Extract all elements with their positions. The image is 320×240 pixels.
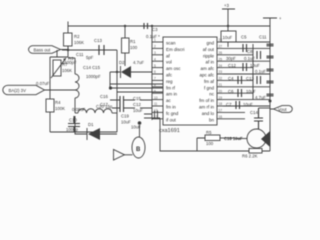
svg-text:3: 3 <box>154 51 156 55</box>
capacitor C6 <box>228 89 266 100</box>
svg-text:C19: C19 <box>121 114 129 119</box>
capacitor C14 labels <box>83 65 101 79</box>
svg-text:+: + <box>279 16 282 21</box>
svg-text:C14: C14 <box>250 110 258 115</box>
capacitor C14 <box>250 108 270 129</box>
svg-text:+3: +3 <box>224 3 230 8</box>
wire bottom rail <box>160 118 270 151</box>
wire right rail <box>269 26 271 151</box>
svg-text:24: 24 <box>219 64 223 68</box>
svg-text:11: 11 <box>154 102 158 106</box>
capacitor C9 <box>221 26 236 47</box>
chip internal pin labels <box>166 41 215 123</box>
svg-text:9: 9 <box>154 89 156 93</box>
svg-text:19: 19 <box>219 96 223 100</box>
wire left block <box>50 46 68 132</box>
svg-text:C11: C11 <box>76 52 84 57</box>
svg-text:4: 4 <box>154 57 156 61</box>
op-amp U1 chip body cxa1691 <box>163 37 217 125</box>
capacitor C17 <box>100 102 135 112</box>
capacitor C11 <box>62 52 84 65</box>
svg-text:106K: 106K <box>74 40 84 45</box>
resistor R4 <box>46 99 65 112</box>
chip pins right <box>217 42 223 119</box>
earphone B1 <box>125 137 146 158</box>
svg-text:10uF: 10uF <box>133 108 143 113</box>
svg-text:0.05uF: 0.05uF <box>72 107 86 112</box>
svg-text:R2: R2 <box>74 34 80 39</box>
svg-text:B: B <box>136 147 141 153</box>
svg-text:am in: am in <box>166 92 178 97</box>
resistor R1 <box>122 26 138 66</box>
svg-text:BA(2) 3V: BA(2) 3V <box>9 88 27 93</box>
svg-text:C10: C10 <box>69 118 77 123</box>
svg-text:cxa1691: cxa1691 <box>159 128 180 134</box>
svg-text:R5: R5 <box>206 130 212 135</box>
wires chip right to rail <box>223 42 270 119</box>
svg-text:Em discri: Em discri <box>166 47 185 52</box>
svg-text:10uF: 10uF <box>121 120 131 125</box>
svg-text:25: 25 <box>219 57 223 61</box>
node Vout <box>269 100 293 113</box>
svg-text:8: 8 <box>154 83 156 87</box>
svg-text:C6: C6 <box>228 89 234 94</box>
svg-text:23: 23 <box>219 70 223 74</box>
svg-text:scan: scan <box>166 41 176 46</box>
node Bass out <box>29 46 69 54</box>
svg-text:1: 1 <box>154 38 156 42</box>
svg-text:and lo: and lo <box>202 111 215 116</box>
svg-text:C12: C12 <box>228 63 236 68</box>
svg-text:C17: C17 <box>100 102 108 107</box>
resistor R6 <box>242 149 270 159</box>
diode D2 <box>110 60 152 88</box>
wire left rail <box>67 26 69 50</box>
wire top supply rail <box>68 22 270 27</box>
svg-text:0.1uF: 0.1uF <box>244 56 255 61</box>
svg-text:10uF: 10uF <box>250 63 260 68</box>
svg-text:C13: C13 <box>94 38 102 43</box>
svg-text:apc afc: apc afc <box>199 73 214 78</box>
svg-text:af in: af in <box>205 60 214 65</box>
svg-text:C3: C3 <box>152 27 158 32</box>
svg-text:C14 C15: C14 C15 <box>83 65 101 70</box>
svg-text:bn: bn <box>209 117 215 122</box>
svg-text:C11: C11 <box>259 35 267 40</box>
svg-text:C16: C16 <box>100 94 108 99</box>
svg-text:gnd: gnd <box>206 41 214 46</box>
svg-text:28: 28 <box>219 38 223 42</box>
wire bottom left <box>50 131 117 133</box>
svg-text:ac: ac <box>166 98 172 103</box>
svg-text:Bass out: Bass out <box>34 47 52 52</box>
capacitor C12b <box>228 63 266 74</box>
svg-text:Vout: Vout <box>278 107 287 112</box>
svg-text:if out: if out <box>166 117 177 122</box>
speaker triangle <box>114 150 125 161</box>
node BA(2) 3V <box>3 85 75 94</box>
capacitor C19 <box>121 100 160 125</box>
inductor L1 <box>68 58 79 113</box>
svg-text:21: 21 <box>219 83 223 87</box>
svg-text:C5: C5 <box>241 35 247 40</box>
svg-text:am afc: am afc <box>200 66 214 71</box>
svg-text:R4: R4 <box>55 100 61 105</box>
svg-text:afc: afc <box>166 73 173 78</box>
svg-text:vol: vol <box>166 60 172 65</box>
diode D3 at pot <box>261 131 270 147</box>
svg-text:13: 13 <box>154 115 158 119</box>
svg-text:6: 6 <box>154 70 156 74</box>
svg-text:fm in: fm in <box>166 105 176 110</box>
svg-text:5pF: 5pF <box>86 55 94 60</box>
svg-text:D1: D1 <box>88 122 94 127</box>
wire bass to node <box>62 49 117 51</box>
svg-text:4.7uF: 4.7uF <box>133 60 144 65</box>
svg-text:reg: reg <box>166 79 173 84</box>
svg-text:17: 17 <box>219 109 223 113</box>
capacitor C12 cluster labels <box>133 96 143 113</box>
svg-text:100K: 100K <box>55 106 65 111</box>
svg-text:fc gnd: fc gnd <box>166 111 179 116</box>
svg-text:5: 5 <box>154 64 156 68</box>
svg-text:10: 10 <box>154 96 158 100</box>
svg-text:30pF: 30pF <box>226 56 236 61</box>
svg-text:0.1uF: 0.1uF <box>255 69 266 74</box>
capacitor plates on rail <box>267 44 274 96</box>
potentiometer volume <box>224 129 266 148</box>
capacitor C4 <box>228 76 261 84</box>
svg-text:7: 7 <box>154 77 156 81</box>
capacitor C10 <box>66 116 80 132</box>
capacitor C8 <box>226 49 261 61</box>
diode D1 <box>75 116 117 140</box>
svg-text:4.7uF: 4.7uF <box>255 95 266 100</box>
svg-text:fm rf: fm rf <box>166 85 176 90</box>
capacitor C13 <box>86 38 104 60</box>
svg-text:R1: R1 <box>130 39 136 44</box>
svg-text:2: 2 <box>154 45 156 49</box>
svg-text:C8: C8 <box>247 49 253 54</box>
svg-text:ripple: ripple <box>203 53 215 58</box>
svg-text:af out: af out <box>203 47 215 52</box>
svg-text:22: 22 <box>219 77 223 81</box>
svg-text:10uF: 10uF <box>243 102 253 107</box>
svg-text:0.07uF: 0.07uF <box>36 81 50 86</box>
wire chip left rail <box>151 26 153 120</box>
svg-text:R6 2.2K: R6 2.2K <box>242 154 258 159</box>
wire mid vertical <box>116 50 118 132</box>
svg-text:fm of in: fm of in <box>199 98 214 103</box>
resistor R2 <box>64 33 85 46</box>
wires into chip left <box>109 84 163 92</box>
svg-text:100: 100 <box>206 141 214 146</box>
chip pins left <box>152 42 163 119</box>
power +3V symbol <box>222 3 235 26</box>
svg-text:26: 26 <box>219 51 223 55</box>
svg-text:C7: C7 <box>226 102 232 107</box>
vertical link right <box>252 44 254 100</box>
svg-text:C12: C12 <box>133 102 141 107</box>
junction dots <box>67 25 229 73</box>
capacitor C5 <box>241 35 267 53</box>
wire pot to rail <box>267 138 271 140</box>
svg-text:nc: nc <box>209 92 215 97</box>
capacitor C7 <box>226 101 253 109</box>
svg-text:20: 20 <box>219 89 223 93</box>
svg-text:1000p: 1000p <box>66 127 79 132</box>
inductor L2 <box>75 104 117 113</box>
capacitor C16 <box>100 94 135 104</box>
resistor R5 <box>197 130 235 151</box>
svg-text:10uF: 10uF <box>223 35 233 40</box>
svg-text:18: 18 <box>219 102 223 106</box>
svg-text:f gnd: f gnd <box>204 85 215 90</box>
svg-text:D2: D2 <box>119 60 125 65</box>
capacitor C15 bottom <box>131 121 141 137</box>
svg-text:12: 12 <box>154 109 158 113</box>
svg-text:16: 16 <box>219 115 223 119</box>
svg-text:am osc: am osc <box>166 66 181 71</box>
power bar top right <box>263 16 282 26</box>
chip pin numbers <box>154 38 222 119</box>
svg-text:1600pF: 1600pF <box>62 60 77 65</box>
svg-text:27: 27 <box>219 45 223 49</box>
svg-text:fm af: fm af <box>204 79 215 84</box>
capacitor C3 <box>144 23 160 39</box>
resistor R7 with arrow (R3) <box>51 56 74 78</box>
svg-text:am rf in: am rf in <box>199 105 215 110</box>
svg-text:C4: C4 <box>228 76 234 81</box>
svg-text:100: 100 <box>130 45 138 50</box>
svg-text:10uF: 10uF <box>246 89 256 94</box>
svg-text:106K: 106K <box>62 68 72 73</box>
svg-text:1000pF: 1000pF <box>86 74 101 79</box>
